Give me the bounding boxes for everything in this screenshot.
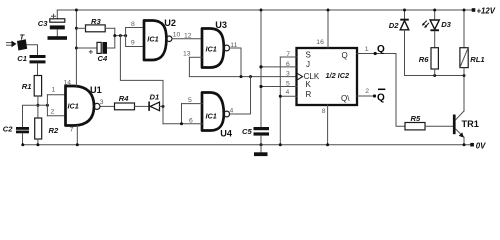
node VDD rail dot xyxy=(75,9,78,12)
node pin5 riser foot xyxy=(180,122,183,125)
svg-text:IC1: IC1 xyxy=(147,35,158,44)
wire IC2 pin4 R xyxy=(280,95,296,97)
wire U2 input tie xyxy=(125,28,127,47)
LED D3 xyxy=(422,10,439,48)
node D2 rail dot xyxy=(403,9,406,12)
capacitor C1 xyxy=(30,55,46,63)
wire T to C1 xyxy=(27,45,38,55)
node +12V terminal dot xyxy=(472,8,476,12)
ground bar below rail xyxy=(254,145,268,156)
U3 output bubble xyxy=(224,45,230,51)
wire U2 pin8 xyxy=(126,27,144,29)
wire R6 to node xyxy=(434,69,436,76)
svg-text:K: K xyxy=(306,80,312,89)
node R tap xyxy=(279,95,282,98)
node U3 out junction xyxy=(240,75,243,78)
node feedback tap xyxy=(119,34,122,37)
svg-text:C4: C4 xyxy=(98,54,108,63)
node pin16 rail dot xyxy=(327,9,330,12)
svg-text:1/2 IC2: 1/2 IC2 xyxy=(326,71,350,80)
svg-text:5: 5 xyxy=(286,80,290,87)
node 0V terminal dot xyxy=(470,143,474,147)
wire C2 to rail xyxy=(22,133,24,144)
node net A tie xyxy=(113,34,116,37)
svg-text:U1: U1 xyxy=(90,85,102,95)
node emitter foot xyxy=(463,143,466,146)
svg-text:TR1: TR1 xyxy=(462,119,479,129)
wire U1 out to R4 xyxy=(101,105,115,107)
wire U1 input tie vertical xyxy=(46,95,48,116)
wire U4 out riser xyxy=(230,77,251,114)
wire U4 pin5 xyxy=(182,103,203,105)
svg-text:RL1: RL1 xyxy=(470,55,484,64)
capacitor C3 xyxy=(48,10,68,40)
resistor R1 xyxy=(34,76,41,97)
wire IC2 pin6 J xyxy=(261,66,297,68)
svg-text:6: 6 xyxy=(286,61,290,68)
svg-text:1: 1 xyxy=(52,87,56,94)
svg-text:10: 10 xyxy=(173,32,181,39)
wire CLK line xyxy=(189,76,296,78)
wire pin13 riser xyxy=(188,57,190,76)
svg-text:R6: R6 xyxy=(419,55,429,64)
resistor R6 xyxy=(431,48,438,69)
wire pin8 to rail xyxy=(327,105,329,145)
wire net A to U2 xyxy=(115,35,126,37)
svg-text:R4: R4 xyxy=(119,94,129,103)
svg-text:Q\: Q\ xyxy=(341,94,350,103)
node Q dot xyxy=(374,52,377,55)
svg-text:D1: D1 xyxy=(150,92,160,101)
node RL1 rail dot xyxy=(463,9,466,12)
wire J/K VDD bus xyxy=(260,10,262,127)
U2 output bubble xyxy=(166,36,172,42)
node R3 tap xyxy=(75,27,78,30)
svg-text:D2: D2 xyxy=(389,21,399,30)
svg-text:8: 8 xyxy=(322,108,326,115)
svg-text:C2: C2 xyxy=(3,125,13,134)
svg-text:13: 13 xyxy=(183,50,191,57)
wire IC2 pin5 K xyxy=(261,86,297,88)
wire node to U1 inputs tie xyxy=(38,104,48,106)
svg-text:R2: R2 xyxy=(49,126,59,135)
input arrow xyxy=(7,41,17,48)
svg-text:7: 7 xyxy=(286,51,290,58)
node RL1 foot xyxy=(463,74,466,77)
svg-text:U4: U4 xyxy=(220,128,233,138)
gate U4 (IC1d NAND) xyxy=(202,93,224,131)
wire R1 to R2 through node xyxy=(37,96,39,118)
node J/K bus rail dot xyxy=(260,9,263,12)
wire U2 pin9 xyxy=(126,46,144,48)
node U2 tie tap xyxy=(124,34,127,37)
svg-text:8: 8 xyxy=(131,21,135,28)
node C2 foot xyxy=(21,143,24,146)
transistor TR1 xyxy=(453,76,464,145)
svg-text:Q: Q xyxy=(377,93,385,104)
resistor R2 xyxy=(35,118,42,139)
wire U1 pin7 to rail xyxy=(76,126,78,145)
U1 output bubble xyxy=(94,103,100,109)
svg-text:3: 3 xyxy=(286,71,290,78)
wire R2 to rail xyxy=(37,139,39,145)
wire R3 left xyxy=(76,27,85,29)
svg-text:IC1: IC1 xyxy=(206,111,217,120)
svg-text:2: 2 xyxy=(51,109,55,116)
wire Q riser to R5 xyxy=(396,54,405,127)
svg-text:0V: 0V xyxy=(476,141,486,150)
wire R4 to D1 xyxy=(135,105,149,107)
svg-text:S: S xyxy=(306,50,311,59)
svg-text:R1: R1 xyxy=(22,82,32,91)
svg-text:4: 4 xyxy=(230,107,234,114)
wire VDD line to U1 pin14 with R3/C4 taps xyxy=(75,10,77,86)
Q~ overbar xyxy=(378,88,385,90)
svg-text:Q: Q xyxy=(377,44,385,55)
clock edge triangle xyxy=(297,73,303,80)
capacitor C4 xyxy=(76,42,114,54)
wire R3 right xyxy=(105,27,115,29)
svg-text:U2: U2 xyxy=(164,18,176,28)
capacitor C5 xyxy=(254,127,270,145)
node D3 rail dot xyxy=(433,9,436,12)
svg-text:9: 9 xyxy=(131,40,135,47)
wire collector node line xyxy=(405,75,465,77)
wire C1 to R1 xyxy=(37,63,39,75)
diode D1 xyxy=(148,102,159,111)
svg-text:+12V: +12V xyxy=(477,7,496,16)
capacitor C2 xyxy=(16,127,29,133)
wire U3 pin13 xyxy=(189,56,202,58)
node U4 out junction xyxy=(249,75,252,78)
svg-text:R: R xyxy=(306,90,312,99)
node J tap xyxy=(259,65,262,68)
node C4 tap xyxy=(75,47,78,50)
U4 output bubble xyxy=(224,111,230,117)
wire IC2 pin7 S xyxy=(280,56,296,58)
wire Q output xyxy=(357,53,396,55)
node pin8 foot xyxy=(326,143,329,146)
svg-text:D3: D3 xyxy=(441,20,451,29)
flip-flop 1/2 IC2 box xyxy=(297,48,358,105)
wire S/R ground line xyxy=(279,57,281,145)
node S/R foot xyxy=(279,143,282,146)
resistor R4 xyxy=(115,103,135,110)
wire Q~ output xyxy=(357,95,375,97)
svg-text:4: 4 xyxy=(286,89,290,96)
wire node to C2 xyxy=(23,105,38,127)
wire R3/C4 right tie xyxy=(114,28,116,48)
wire D1 to node xyxy=(160,105,164,107)
svg-text:U3: U3 xyxy=(215,20,227,30)
svg-text:R5: R5 xyxy=(411,114,421,123)
wire D1 node feedback to net A xyxy=(120,36,163,107)
transducer T xyxy=(17,39,27,50)
svg-text:1: 1 xyxy=(365,46,369,53)
resistor R5 xyxy=(405,123,425,130)
node K tap xyxy=(259,85,262,88)
node R6 foot xyxy=(433,74,436,77)
svg-text:C5: C5 xyxy=(242,127,252,136)
svg-text:14: 14 xyxy=(64,80,72,87)
node tie junction xyxy=(46,104,49,107)
gate U3 (IC1c NAND) xyxy=(202,29,224,68)
svg-text:C3: C3 xyxy=(38,19,48,28)
wire U1 pin2 xyxy=(47,115,65,117)
svg-text:3: 3 xyxy=(100,99,104,106)
svg-text:IC1: IC1 xyxy=(206,45,217,54)
svg-text:Q: Q xyxy=(342,51,348,60)
wire bottom 0V rail xyxy=(23,144,473,146)
gate U2 (IC1b NAND) xyxy=(144,21,166,61)
node R2 foot xyxy=(36,143,39,146)
svg-text:2: 2 xyxy=(365,88,369,95)
wire U4 pin6 xyxy=(163,123,202,125)
svg-text:12: 12 xyxy=(184,32,192,39)
gate U1 (IC1a NAND) xyxy=(66,86,95,126)
svg-text:7: 7 xyxy=(70,127,74,134)
wire U2 out to U3 pin12 xyxy=(172,38,202,40)
wire U1 pin1 xyxy=(47,94,65,96)
node Q~ dot xyxy=(373,94,376,97)
diode D2 xyxy=(400,10,409,76)
wire pin5 riser xyxy=(181,104,183,124)
relay RL1 xyxy=(460,10,468,76)
node R1/R2 junction xyxy=(36,104,39,107)
wire U3 out to riser xyxy=(230,48,241,77)
svg-text:R3: R3 xyxy=(91,17,101,26)
wire D1 node riser to pin6 xyxy=(162,106,164,123)
node C5 foot xyxy=(260,143,263,146)
wire R5 to TR1 base xyxy=(425,125,453,127)
svg-text:IC1: IC1 xyxy=(68,102,79,111)
node U1 pin7 foot xyxy=(76,143,79,146)
node D1 cathode xyxy=(162,105,165,108)
svg-text:J: J xyxy=(306,60,310,69)
wire pin16 to rail xyxy=(327,10,329,48)
resistor R3 xyxy=(86,25,106,32)
svg-text:C1: C1 xyxy=(17,54,27,63)
wire top +12V rail xyxy=(57,9,473,11)
svg-text:16: 16 xyxy=(316,39,324,46)
